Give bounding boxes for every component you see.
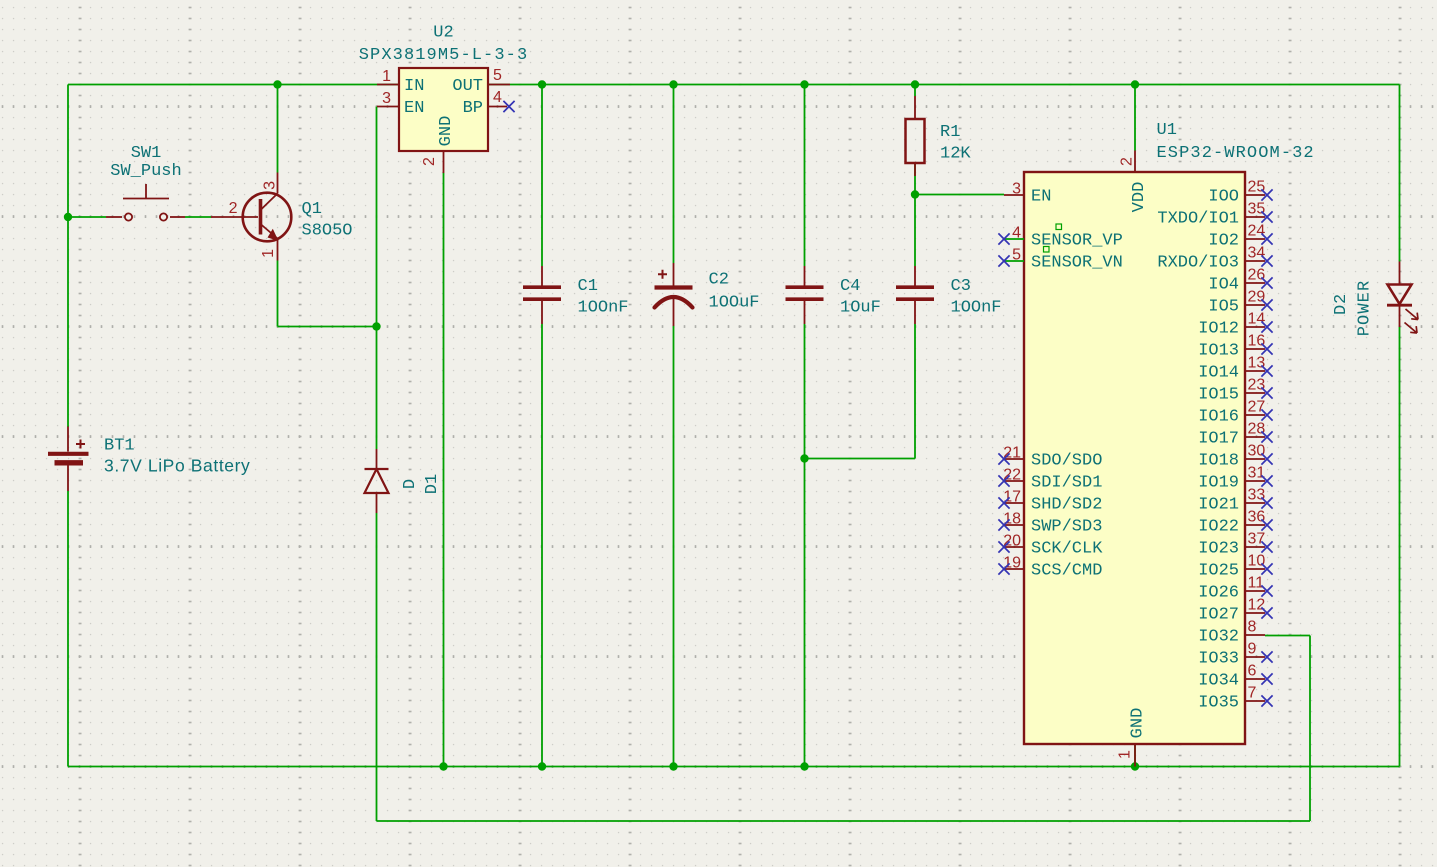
svg-text:IO14: IO14 — [1198, 364, 1239, 383]
svg-text:4: 4 — [1012, 225, 1021, 242]
U1 pin 25 IO0 — [1208, 179, 1272, 207]
svg-text:IO25: IO25 — [1198, 562, 1239, 581]
U1 pin 4 SENSOR_VP — [998, 224, 1122, 251]
wire left rail upper (battery column) — [67, 85, 69, 428]
svg-text:BT1: BT1 — [104, 437, 135, 456]
U1 pin 23 IO15 — [1198, 377, 1272, 405]
svg-text:POWER: POWER — [1356, 280, 1375, 337]
svg-text:IO23: IO23 — [1198, 540, 1239, 559]
U1 pin 13 IO14 — [1198, 355, 1272, 383]
wire IO32 drop — [1309, 636, 1311, 822]
junction node C1-rail — [538, 762, 546, 770]
svg-text:OUT: OUT — [452, 77, 483, 96]
svg-text:18: 18 — [1003, 511, 1021, 528]
svg-text:GND: GND — [437, 116, 456, 147]
svg-text:1: 1 — [1117, 750, 1134, 759]
svg-text:IO22: IO22 — [1198, 518, 1239, 537]
svg-text:24: 24 — [1248, 223, 1266, 240]
junction node C4-VBAT — [800, 80, 808, 88]
U1 pin 37 IO23 — [1198, 531, 1272, 559]
wire IO32 to drop — [1265, 635, 1310, 637]
svg-text:IO17: IO17 — [1198, 430, 1239, 449]
U2 pin 4 BP no-connect — [463, 89, 515, 118]
svg-text:IO16: IO16 — [1198, 408, 1239, 427]
U2 pin 3 EN — [377, 90, 424, 118]
wire LED D2 cathode to bottom rail — [1399, 327, 1401, 767]
svg-text:5: 5 — [493, 67, 502, 84]
svg-text:D1: D1 — [423, 474, 442, 494]
wire SW1 left to battery rail — [68, 216, 106, 218]
wire EN node down to D1 — [376, 327, 378, 450]
U1 pin 2 VDD — [1119, 151, 1150, 213]
wire D1 anode down — [376, 513, 378, 821]
svg-text:33: 33 — [1248, 487, 1266, 504]
U2 pin 2 GND — [421, 116, 456, 173]
U1 pin 1 GND — [1117, 708, 1148, 767]
U1 pin 16 IO13 — [1198, 333, 1272, 361]
junction node U1GND-rail — [1131, 762, 1139, 770]
svg-text:1OOnF: 1OOnF — [951, 299, 1002, 318]
svg-text:IO2: IO2 — [1208, 232, 1239, 251]
svg-text:EN: EN — [1031, 188, 1051, 207]
wire GND bottom rail — [68, 766, 1400, 768]
svg-text:12K: 12K — [940, 145, 971, 164]
svg-text:29: 29 — [1248, 289, 1266, 306]
svg-text:8: 8 — [1248, 619, 1257, 636]
svg-text:20: 20 — [1003, 533, 1021, 550]
svg-text:3: 3 — [382, 90, 391, 107]
wire R1 bottom to EN node — [914, 163, 916, 195]
svg-text:2: 2 — [421, 157, 438, 166]
U1 pin 12 IO27 — [1198, 597, 1272, 625]
resistor R1 — [906, 96, 925, 176]
junction node C1-VBAT — [538, 80, 546, 88]
svg-text:VDD: VDD — [1130, 182, 1149, 213]
U1 pin 3 EN — [1004, 181, 1051, 207]
wire U2 EN column — [376, 107, 378, 327]
svg-text:3: 3 — [1012, 181, 1021, 198]
svg-text:IO26: IO26 — [1198, 584, 1239, 603]
svg-text:IO19: IO19 — [1198, 474, 1239, 493]
svg-text:IO4: IO4 — [1208, 276, 1239, 295]
junction node battery-SW1 — [64, 213, 72, 221]
svg-text:C3: C3 — [951, 277, 971, 296]
U1 pin 33 IO21 — [1198, 487, 1272, 515]
U1 pin 11 IO26 — [1198, 575, 1272, 603]
wire VBAT top rail — [68, 84, 1400, 86]
U1 pin 29 IO5 — [1208, 289, 1272, 317]
U1 pin 22 SDI/SD1 — [998, 467, 1102, 493]
svg-text:6: 6 — [1248, 663, 1257, 680]
wire C4 top — [804, 85, 806, 267]
U1 pin 36 IO22 — [1198, 509, 1272, 537]
svg-text:16: 16 — [1248, 333, 1266, 350]
svg-text:2: 2 — [229, 200, 238, 217]
U1 pin 6 IO34 — [1198, 663, 1272, 691]
wire Q1 collector to top rail — [277, 85, 279, 173]
wire EN net to U1 — [915, 194, 1004, 196]
U1 pin 14 IO12 — [1198, 311, 1272, 339]
svg-text:IO18: IO18 — [1198, 452, 1239, 471]
svg-text:13: 13 — [1248, 355, 1266, 372]
U1 pin 10 IO25 — [1198, 553, 1272, 581]
svg-text:SCS/CMD: SCS/CMD — [1031, 562, 1102, 581]
svg-text:10: 10 — [1248, 553, 1266, 570]
svg-text:SDO/SDO: SDO/SDO — [1031, 452, 1102, 471]
svg-text:26: 26 — [1248, 267, 1266, 284]
svg-text:SENSOR_VP: SENSOR_VP — [1031, 232, 1123, 251]
svg-text:37: 37 — [1248, 531, 1266, 548]
svg-text:SW1: SW1 — [131, 144, 162, 163]
svg-text:1: 1 — [260, 249, 277, 258]
svg-text:IO13: IO13 — [1198, 342, 1239, 361]
U1 pin 21 SDO/SD0 — [998, 445, 1102, 471]
capacitor C2 polarized — [655, 263, 693, 326]
svg-text:31: 31 — [1248, 465, 1266, 482]
svg-text:Q1: Q1 — [302, 200, 322, 219]
svg-text:19: 19 — [1003, 555, 1021, 572]
wire U1 GND to bottom rail — [1134, 744, 1136, 767]
LED D2 — [1387, 262, 1418, 334]
wire VDD drop to U1 — [1134, 85, 1136, 151]
svg-text:1OuF: 1OuF — [840, 299, 881, 318]
svg-text:IO32: IO32 — [1198, 628, 1239, 647]
U1 pin 5 SENSOR_VN — [998, 247, 1122, 273]
svg-text:28: 28 — [1248, 421, 1266, 438]
svg-text:12: 12 — [1248, 597, 1266, 614]
U1 pin 30 IO18 — [1198, 443, 1272, 471]
svg-text:1OOnF: 1OOnF — [578, 299, 629, 318]
svg-text:EN: EN — [404, 99, 424, 118]
svg-text:1: 1 — [382, 68, 391, 85]
svg-text:23: 23 — [1248, 377, 1266, 394]
svg-text:U1: U1 — [1157, 121, 1177, 140]
junction node EN-emitter — [372, 322, 380, 330]
U1 pin 31 IO19 — [1198, 465, 1272, 493]
U1 pin 24 IO2 — [1208, 223, 1272, 251]
svg-text:9: 9 — [1248, 641, 1257, 658]
diode D1 — [365, 449, 389, 513]
svg-text:IO34: IO34 — [1198, 672, 1239, 691]
U1 pin 9 IO33 — [1198, 641, 1272, 669]
svg-text:SDI/SD1: SDI/SD1 — [1031, 474, 1102, 493]
wire C3 bottom — [914, 324, 916, 459]
svg-text:C2: C2 — [709, 271, 729, 290]
wire left rail lower (battery column) — [67, 491, 69, 767]
transistor Q1 — [211, 173, 291, 261]
svg-text:25: 25 — [1248, 179, 1266, 196]
svg-text:IO27: IO27 — [1198, 606, 1239, 625]
wire right rail to LED D2 — [1399, 85, 1401, 262]
svg-text:7: 7 — [1248, 685, 1257, 702]
svg-text:1OOuF: 1OOuF — [709, 294, 760, 313]
wire emitter to EN node — [278, 326, 377, 328]
svg-text:IO21: IO21 — [1198, 496, 1239, 515]
wire R1 top — [914, 85, 916, 97]
svg-text:IO33: IO33 — [1198, 650, 1239, 669]
junction node C3-C4 — [800, 454, 808, 462]
junction node EN-R1-C3 — [911, 190, 919, 198]
svg-text:U2: U2 — [433, 24, 453, 43]
wire C1 top — [541, 85, 543, 267]
svg-text:IOO: IOO — [1208, 188, 1239, 207]
wire SW1 right to Q1 base — [185, 216, 211, 218]
svg-text:SENSOR_VN: SENSOR_VN — [1031, 254, 1123, 273]
svg-text:3: 3 — [262, 181, 279, 190]
wire C3 top — [914, 195, 916, 267]
svg-text:SCK/CLK: SCK/CLK — [1031, 540, 1103, 559]
junction node collector-VBAT — [273, 80, 281, 88]
battery BT1 — [48, 427, 89, 492]
svg-text:IO5: IO5 — [1208, 298, 1239, 317]
svg-text:5: 5 — [1012, 247, 1021, 264]
svg-text:GND: GND — [1129, 708, 1148, 739]
svg-text:SHD/SD2: SHD/SD2 — [1031, 496, 1102, 515]
svg-text:C1: C1 — [578, 277, 598, 296]
svg-text:IO12: IO12 — [1198, 320, 1239, 339]
svg-text:34: 34 — [1248, 245, 1266, 262]
svg-text:21: 21 — [1003, 445, 1021, 462]
junction node C4-rail — [800, 762, 808, 770]
U1 pin 35 TXD0/IO1 — [1157, 201, 1272, 229]
junction node U2GND-rail — [439, 762, 447, 770]
wire Q1 emitter down — [277, 261, 279, 327]
U1 pin 8 IO32 — [1198, 619, 1265, 647]
svg-text:36: 36 — [1248, 509, 1266, 526]
wire C1 bottom — [541, 324, 543, 767]
svg-text:R1: R1 — [940, 123, 960, 142]
U1 pin 26 IO4 — [1208, 267, 1272, 295]
capacitor C1 — [523, 266, 561, 324]
svg-text:17: 17 — [1003, 489, 1021, 506]
U2 pin 5 OUT — [452, 67, 510, 96]
svg-text:SPX3819M5-L-3-3: SPX3819M5-L-3-3 — [359, 46, 529, 65]
wire C4 bottom — [804, 324, 806, 767]
svg-text:11: 11 — [1248, 575, 1265, 592]
svg-text:IO35: IO35 — [1198, 694, 1239, 713]
svg-text:27: 27 — [1248, 399, 1266, 416]
svg-text:SWP/SD3: SWP/SD3 — [1031, 518, 1102, 537]
junction node C2-VBAT — [669, 80, 677, 88]
svg-text:IN: IN — [404, 77, 424, 96]
wire lower return line — [377, 820, 1311, 822]
capacitor C4 — [786, 266, 824, 324]
capacitor C3 — [896, 266, 934, 324]
U1 pin 19 SCS/CMD — [998, 555, 1102, 581]
svg-text:D: D — [401, 479, 420, 489]
IC U1 body — [1024, 172, 1245, 744]
svg-text:35: 35 — [1248, 201, 1266, 218]
svg-text:ESP32-WROOM-32: ESP32-WROOM-32 — [1157, 144, 1315, 163]
svg-text:S8O5O: S8O5O — [302, 222, 353, 241]
svg-text:14: 14 — [1248, 311, 1266, 328]
svg-text:BP: BP — [463, 99, 483, 118]
svg-text:22: 22 — [1003, 467, 1021, 484]
wire C2 bottom — [673, 326, 675, 767]
svg-text:2: 2 — [1119, 157, 1136, 166]
U1 pin 17 SHD/SD2 — [998, 489, 1102, 515]
U1 pin 7 IO35 — [1198, 685, 1272, 713]
svg-text:TXDO/IO1: TXDO/IO1 — [1157, 210, 1239, 229]
svg-text:30: 30 — [1248, 443, 1266, 460]
U1 pin 27 IO16 — [1198, 399, 1272, 427]
U1 pin 28 IO17 — [1198, 421, 1272, 449]
U1 pin 34 RXD0/IO3 — [1157, 245, 1272, 273]
svg-text:C4: C4 — [840, 277, 860, 296]
wire C2 top — [673, 85, 675, 264]
U1 pin 18 SWP/SD3 — [998, 511, 1102, 537]
svg-text:IO15: IO15 — [1198, 386, 1239, 405]
U1 pin 20 SCK/CLK — [998, 533, 1103, 559]
svg-text:RXDO/IO3: RXDO/IO3 — [1157, 254, 1239, 273]
svg-text:3.7V LiPo Battery: 3.7V LiPo Battery — [104, 456, 250, 476]
svg-text:SW_Push: SW_Push — [110, 162, 181, 181]
switch SW1 — [106, 184, 185, 221]
junction node R1-VBAT — [911, 80, 919, 88]
IC U2 body — [399, 68, 488, 151]
junction node VDD-VBAT — [1131, 80, 1139, 88]
junction node C2-rail — [669, 762, 677, 770]
wire U2 GND column — [443, 173, 445, 767]
U2 pin 1 IN — [377, 68, 424, 96]
svg-text:4: 4 — [493, 89, 502, 106]
wire C3 to C4 column — [805, 458, 916, 460]
svg-text:D2: D2 — [1332, 293, 1351, 315]
